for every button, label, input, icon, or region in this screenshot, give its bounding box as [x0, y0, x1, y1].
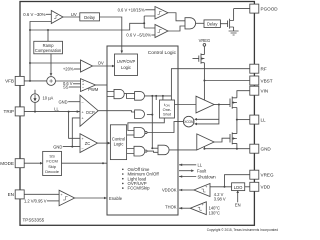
driver low-side: [197, 134, 214, 150]
wire VFB bus to OV comparator: [30, 62, 81, 64]
svg-text:OV: OV: [98, 60, 104, 65]
wire to VBST pin: [204, 80, 249, 82]
wire VREG to bootstrap switch: [203, 46, 205, 54]
pin EN: [15, 190, 24, 199]
svg-text:VREG: VREG: [199, 38, 211, 43]
wire latch feedback: [151, 96, 153, 148]
UVP/OVP logic block: [115, 54, 138, 76]
wire low FET source to GND rail: [236, 143, 238, 148]
svg-text:Delay: Delay: [207, 22, 218, 27]
svg-text:LL: LL: [261, 117, 267, 122]
comparator OCP (overcurrent): [80, 95, 98, 126]
gate AND C: [135, 110, 145, 119]
pin VREG: [250, 170, 259, 179]
wire THOK output to control block: [179, 207, 190, 209]
wire 0.6V to PWM: [73, 83, 81, 85]
wire LL pin: [237, 119, 250, 121]
svg-text:130°C: 130°C: [209, 210, 220, 215]
gate D inputs: [127, 134, 134, 136]
wire VFB bus to PGOOD comparators: [30, 23, 144, 30]
wire EN comparator to Enable: [75, 197, 105, 199]
pin RF: [250, 64, 259, 73]
svg-text:UVP/OVP: UVP/OVP: [117, 59, 136, 64]
svg-text:VREG: VREG: [261, 173, 274, 178]
ground symbol PGOOD: [229, 31, 239, 35]
node one-shot trigger: [151, 95, 153, 97]
comparator OV (overvoltage): [81, 60, 93, 72]
svg-text:+: +: [82, 137, 84, 141]
comparator UV (undervoltage): [51, 11, 63, 24]
wire GND to OCP: [68, 101, 80, 103]
transistor high-side FET: [230, 97, 237, 109]
svg-text:Fault: Fault: [197, 169, 207, 174]
svg-text:OCP: OCP: [86, 110, 95, 115]
svg-text:RF: RF: [261, 67, 267, 72]
pin PGOOD: [250, 4, 259, 13]
gate AND B: [135, 92, 145, 101]
wire high driver to high FET gate: [214, 104, 230, 106]
wire SS to PWM: [69, 86, 81, 88]
wire LDO to VDDOK comparator: [210, 186, 232, 188]
ground rail wire: [204, 148, 249, 150]
svg-text:GND: GND: [53, 145, 62, 150]
control logic small block: [110, 125, 126, 160]
pin TRIP: [15, 107, 24, 116]
svg-text:EN: EN: [8, 192, 14, 197]
svg-text:TRIP: TRIP: [4, 109, 14, 114]
wire PWM output to control block: [96, 84, 108, 86]
svg-text:–: –: [82, 146, 84, 150]
wire decode block to control block: [62, 162, 108, 164]
node LDO output: [224, 186, 226, 188]
svg-text:PWM: PWM: [88, 87, 99, 92]
svg-text:SS: SS: [63, 85, 69, 90]
node gate sense: [218, 104, 220, 106]
comparator PG overvoltage: [155, 7, 168, 20]
svg-text:LL: LL: [198, 163, 203, 168]
node latch to gate F: [151, 147, 153, 149]
svg-text:–: –: [82, 100, 84, 104]
wire high FET source to LL: [236, 108, 238, 134]
svg-text:Copyright © 2015, Texas Instru: Copyright © 2015, Texas Instruments Inco…: [207, 228, 278, 232]
summing node: [47, 77, 56, 86]
wire delay to PGOOD FET gate: [220, 23, 227, 25]
block XCON: [183, 116, 194, 127]
signal Shutdown into control block: [179, 176, 196, 178]
wire bootstrap to high driver supply: [203, 81, 205, 101]
gate AND PGOOD: [185, 18, 196, 29]
svg-text:EN: EN: [235, 202, 241, 207]
wire AND to PGOOD delay: [196, 22, 204, 24]
wire summing node to PWM comparator: [56, 80, 81, 82]
svg-text:THOK: THOK: [165, 205, 177, 210]
wire VDDOK output to control block: [179, 189, 194, 191]
wire VREG pin: [225, 175, 250, 187]
gate AND A: [114, 89, 124, 98]
node VFB bus taps: [29, 80, 31, 82]
svg-text:0.6 V +10/15%: 0.6 V +10/15%: [118, 7, 145, 12]
transistor low-side FET: [230, 132, 237, 144]
svg-text:Shot: Shot: [163, 112, 172, 117]
svg-text:Decode: Decode: [45, 169, 60, 174]
wire OCP into gate C: [98, 111, 134, 112]
svg-text:MODE: MODE: [0, 161, 14, 166]
gate AND F: [158, 145, 169, 155]
wire latch loop into gate B: [127, 94, 135, 99]
svg-text:+: +: [61, 193, 63, 197]
comparator EN (1.2V/0.95V): [59, 190, 75, 206]
delay block PGOOD: [204, 20, 220, 28]
wire gate D to XCON: [147, 122, 183, 133]
wire OV output to UVP/OVP logic: [93, 65, 113, 67]
one-shot block: [160, 100, 175, 118]
wire Delay to UVP/OVP logic: [100, 17, 122, 51]
svg-text:+: +: [205, 185, 207, 189]
svg-text:VDDOK: VDDOK: [162, 188, 177, 193]
wire one-shot bottom loop to gate D: [128, 118, 164, 131]
svg-text:VBST: VBST: [261, 78, 273, 83]
wire low driver to low FET gate: [214, 138, 230, 142]
ramp compensation block: [34, 41, 63, 54]
outer device boundary box: [20, 2, 254, 226]
wire VFB node to PG comparators: [144, 16, 155, 28]
wire threshold to PG low comparator: [151, 34, 155, 36]
wire XCON sense lines: [197, 105, 219, 124]
svg-text:TPS53355: TPS53355: [23, 218, 45, 223]
transistor PGOOD pulldown FET: [228, 9, 234, 31]
gate E inputs: [127, 149, 134, 154]
svg-text:+: +: [202, 203, 204, 207]
comparator ZC (zero cross): [80, 134, 98, 153]
pin LL: [250, 115, 259, 124]
svg-text:+: +: [82, 117, 84, 121]
svg-text:UV: UV: [71, 12, 77, 17]
delay block (UV delay): [80, 13, 100, 21]
bullet list inside control logic block: [122, 167, 160, 191]
wire EN pin to EN comparator: [24, 193, 59, 195]
control logic main block: [107, 46, 178, 215]
node TRIP current tap: [34, 111, 36, 113]
wire VFB pin to summing node: [24, 80, 47, 82]
svg-text:ZC: ZC: [85, 141, 91, 146]
wire gate E to gate F: [147, 151, 158, 152]
wire threshold to PG high comparator: [145, 9, 155, 11]
svg-text:10 µA: 10 µA: [43, 96, 54, 101]
node LL branch: [68, 111, 70, 113]
wire UV comparator to Delay: [63, 16, 80, 18]
transistor bootstrap switch: [193, 53, 205, 80]
wire trigger into one-shot: [156, 96, 163, 100]
wire 1.2V threshold to EN comparator: [47, 200, 59, 202]
comparator PWM: [81, 79, 96, 92]
wire threshold to UV comparator: [46, 13, 52, 15]
wire TRIP to OCP: [24, 111, 80, 113]
svg-text:Control Logic: Control Logic: [148, 50, 177, 56]
wire ramp compensation to summing node: [50, 54, 52, 74]
wire +20% threshold: [74, 68, 81, 70]
driver high-side: [196, 96, 214, 113]
svg-text:LL: LL: [54, 107, 59, 112]
signal Fault out of control block: [179, 170, 192, 172]
svg-text:VIN: VIN: [261, 89, 269, 94]
svg-text:+20%: +20%: [63, 67, 74, 72]
wire ramp tap: [47, 29, 49, 31]
pin VDD: [250, 182, 259, 191]
pin VFB: [15, 76, 24, 85]
svg-text:FCCM/Skip: FCCM/Skip: [128, 186, 151, 191]
block LDO: [232, 183, 245, 191]
svg-text:Logic: Logic: [114, 142, 124, 147]
comparator PG undervoltage: [155, 25, 168, 38]
wire FET drain to PGOOD pin: [234, 8, 250, 10]
svg-text:VFB: VFB: [5, 79, 14, 84]
pin VBST: [250, 76, 259, 85]
wire OCP lower input to GND line: [72, 118, 80, 147]
svg-text:Shutdown: Shutdown: [198, 174, 217, 179]
svg-text:Delay: Delay: [84, 15, 96, 20]
svg-text:PGOOD: PGOOD: [261, 6, 279, 11]
gate AND A inputs: [107, 92, 114, 97]
node OCP gnd tap: [71, 146, 73, 148]
wire MODE to decode block: [24, 162, 40, 164]
wire low driver ground: [203, 146, 205, 148]
wire RF to one-shot: [171, 69, 249, 100]
comparator VDDOK: [194, 184, 210, 197]
svg-text:Compensation: Compensation: [35, 48, 62, 53]
node PGOOD comparator feed: [143, 22, 145, 24]
svg-text:XCON: XCON: [184, 120, 194, 124]
wire VIN to high FET drain: [237, 91, 250, 98]
svg-text:3.98 V: 3.98 V: [214, 197, 226, 202]
svg-text:+: +: [82, 110, 84, 114]
wire LL branch down to ZC: [69, 112, 80, 139]
svg-text:Control: Control: [112, 136, 125, 141]
svg-text:LDO: LDO: [234, 185, 243, 190]
node LL: [236, 119, 238, 121]
node VBST junction: [203, 80, 205, 82]
block SS FCCM Skip Decode: [43, 151, 62, 175]
gate AND D: [134, 128, 145, 138]
pin VIN: [250, 86, 259, 95]
wire one-shot to high driver: [175, 104, 197, 106]
wire ZC output to control logic: [98, 142, 109, 144]
wire gate A to gate B: [124, 93, 134, 95]
gate AND E: [134, 146, 145, 156]
svg-text:GND: GND: [261, 147, 272, 152]
current source 10uA: [34, 90, 36, 112]
svg-text:VDD: VDD: [261, 185, 271, 190]
wire gate B output rail: [145, 95, 172, 97]
svg-text:–: –: [82, 88, 84, 92]
svg-text:1.2 V/0.95 V: 1.2 V/0.95 V: [24, 199, 47, 204]
comparator THOK: [190, 202, 206, 215]
svg-text:0.6 V –5/10%: 0.6 V –5/10%: [126, 33, 151, 38]
svg-text:Enable: Enable: [109, 196, 123, 201]
wire EN to LDO: [237, 193, 239, 203]
pin GND: [250, 144, 259, 153]
wire GND to ZC: [63, 146, 80, 148]
wire gate F to low driver: [169, 149, 197, 151]
signal LL into control block: [179, 164, 196, 166]
svg-text:GND: GND: [58, 99, 67, 104]
svg-text:0.6 V –30%: 0.6 V –30%: [23, 12, 45, 17]
pin MODE: [15, 159, 24, 168]
wire LDO to VDD pin: [245, 186, 250, 188]
VFB feedback bus wire: [30, 22, 51, 81]
wire PG comparators to AND: [168, 13, 185, 31]
svg-text:Logic: Logic: [121, 65, 131, 70]
